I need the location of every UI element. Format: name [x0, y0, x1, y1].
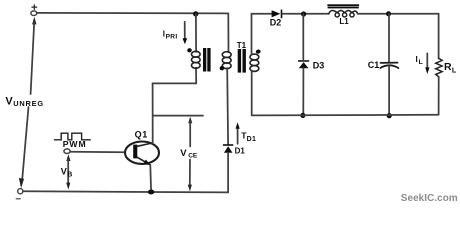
diode D1 [223, 144, 233, 153]
svg-text:PWM: PWM [63, 139, 87, 149]
wire D2 to L1 [282, 13, 329, 15]
wire secondary top left corner [252, 14, 273, 116]
inductor secondary winding of T1 [250, 54, 259, 60]
wire reset winding to D1 [226, 68, 229, 144]
PWM square wave symbol [55, 133, 91, 140]
svg-text:C1: C1 [368, 60, 380, 70]
svg-text:V: V [61, 167, 67, 177]
phase dot reset winding [219, 65, 225, 71]
transistor Q1 emitter diagonal [137, 157, 150, 164]
inductor L1 [329, 10, 358, 14]
svg-text:D2: D2 [270, 18, 282, 28]
arrow VCE up arrowhead [188, 117, 192, 124]
svg-text:L1: L1 [339, 17, 349, 26]
svg-text:PRI: PRI [166, 34, 178, 41]
inductor reset winding of T1 [222, 52, 231, 58]
svg-text:Q1: Q1 [135, 129, 148, 139]
arrow VB down arrowhead [66, 183, 70, 190]
core bars L1 [327, 4, 359, 6]
node emitter junction dot [148, 190, 154, 195]
wire VCE tick line [153, 115, 203, 117]
wire top rail primary [37, 12, 228, 15]
transistor Q1 collector diagonal [137, 143, 152, 146]
svg-text:CE: CE [188, 153, 198, 160]
svg-text:D3: D3 [313, 60, 325, 70]
wire bottom rail secondary [252, 114, 439, 117]
diode D3 [298, 60, 309, 68]
svg-text:V: V [5, 96, 13, 108]
wire RL to bottom corner [438, 77, 440, 115]
svg-text:I: I [416, 55, 418, 64]
wire junction to primary coil [195, 14, 197, 52]
phase dot primary [187, 48, 193, 53]
wire C1 branch lower [388, 66, 390, 115]
svg-text:L: L [419, 59, 423, 66]
node junction dot C1 top [386, 11, 391, 16]
transistor Q1 base bar [133, 145, 137, 159]
inductor primary winding of T1 [192, 51, 201, 57]
capacitor C1 [380, 63, 398, 68]
wire right edge down to RL [438, 14, 440, 59]
diode D2 [272, 10, 283, 19]
arrow IPRI [184, 22, 186, 40]
wire reset winding top from rail [227, 13, 229, 52]
node PWM input terminal [64, 149, 70, 154]
svg-text:D1: D1 [247, 136, 257, 143]
svg-text:SeekIC.com: SeekIC.com [401, 193, 458, 204]
svg-text:D1: D1 [235, 147, 246, 156]
svg-text:R: R [444, 61, 452, 73]
phase dot secondary [255, 49, 261, 54]
core bars T1 [238, 49, 241, 73]
wire collector jog to primary coil [153, 82, 197, 84]
wire C1 branch upper [388, 14, 390, 62]
wire Q1 collector up [152, 83, 154, 143]
node junction dot D3 top [301, 11, 306, 16]
core bars primary [203, 48, 206, 72]
wire Q1 emitter down [149, 165, 152, 192]
node junction dot D3 bottom [300, 113, 305, 118]
resistor RL [436, 58, 442, 77]
arrow VCE shaft upper [189, 122, 191, 147]
node junction dot C1 bottom [387, 113, 392, 118]
arrowhead into minus terminal [19, 178, 24, 188]
arrow VB up arrowhead [66, 154, 70, 161]
wire PWM to Q1 base [70, 151, 125, 154]
wire D1 to bottom rail [227, 153, 229, 193]
svg-text:V: V [180, 148, 187, 159]
wire L1 to corner [358, 13, 439, 15]
wire left source branch lower [22, 107, 28, 179]
transistor Q1 body ellipse [125, 142, 159, 164]
node minus terminal bottom-left [16, 189, 23, 199]
arrow VCE down arrowhead [188, 185, 192, 192]
node plus terminal top-left [31, 5, 37, 16]
wire D3 branch [302, 14, 304, 59]
svg-text:T1: T1 [237, 41, 247, 50]
svg-text:UNREG: UNREG [13, 99, 44, 108]
svg-text:B: B [67, 172, 72, 179]
wire bottom rail primary [23, 191, 228, 192]
node junction dot top rail [193, 11, 198, 16]
arrow IL [426, 53, 428, 68]
wire left source branch upper [32, 17, 36, 25]
arrow TD1 [237, 127, 239, 144]
arrow VB shaft [67, 160, 69, 185]
arrow VCE shaft lower [189, 160, 191, 186]
transistor Q1 emitter arrowhead [143, 160, 150, 166]
svg-text:L: L [452, 66, 457, 75]
